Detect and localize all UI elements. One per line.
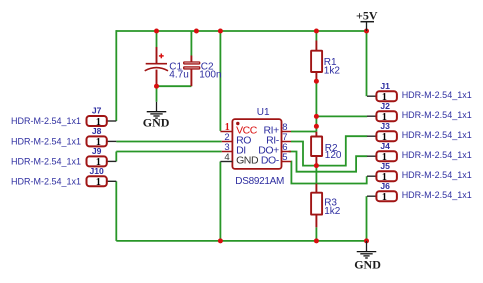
svg-text:J6: J6 [380, 181, 390, 191]
svg-text:HDR-M-2.54_1x1: HDR-M-2.54_1x1 [402, 190, 472, 200]
svg-text:100n: 100n [199, 69, 221, 80]
svg-text:HDR-M-2.54_1x1: HDR-M-2.54_1x1 [402, 110, 472, 120]
svg-text:DO-: DO- [261, 155, 280, 167]
svg-text:HDR-M-2.54_1x1: HDR-M-2.54_1x1 [402, 170, 472, 180]
svg-text:J9: J9 [92, 146, 102, 156]
svg-text:HDR-M-2.54_1x1: HDR-M-2.54_1x1 [11, 156, 81, 166]
svg-text:J3: J3 [380, 121, 390, 131]
svg-text:HDR-M-2.54_1x1: HDR-M-2.54_1x1 [11, 136, 81, 146]
svg-text:J1: J1 [380, 81, 390, 91]
svg-text:J4: J4 [380, 141, 390, 151]
svg-text:U1: U1 [257, 107, 270, 118]
svg-text:J5: J5 [380, 161, 390, 171]
svg-text:DS8921AM: DS8921AM [235, 176, 284, 187]
svg-text:4: 4 [224, 152, 229, 163]
svg-text:J10: J10 [89, 166, 104, 176]
svg-text:J2: J2 [380, 101, 390, 111]
svg-text:1: 1 [96, 177, 101, 188]
svg-text:J7: J7 [92, 106, 102, 116]
svg-text:1: 1 [382, 192, 387, 203]
svg-text:HDR-M-2.54_1x1: HDR-M-2.54_1x1 [402, 130, 472, 140]
svg-text:5: 5 [282, 152, 287, 163]
svg-text:GND: GND [354, 258, 381, 272]
svg-text:GND: GND [143, 116, 170, 130]
svg-text:HDR-M-2.54_1x1: HDR-M-2.54_1x1 [402, 90, 472, 100]
svg-text:120: 120 [325, 150, 342, 161]
svg-text:HDR-M-2.54_1x1: HDR-M-2.54_1x1 [402, 150, 472, 160]
svg-text:1k2: 1k2 [324, 66, 341, 77]
svg-text:1k2: 1k2 [324, 206, 341, 217]
svg-text:+5V: +5V [356, 8, 378, 22]
svg-text:J8: J8 [92, 126, 102, 136]
svg-text:4.7u: 4.7u [169, 69, 188, 80]
svg-text:GND: GND [236, 155, 259, 167]
svg-text:HDR-M-2.54_1x1: HDR-M-2.54_1x1 [11, 176, 81, 186]
svg-text:HDR-M-2.54_1x1: HDR-M-2.54_1x1 [11, 116, 81, 126]
